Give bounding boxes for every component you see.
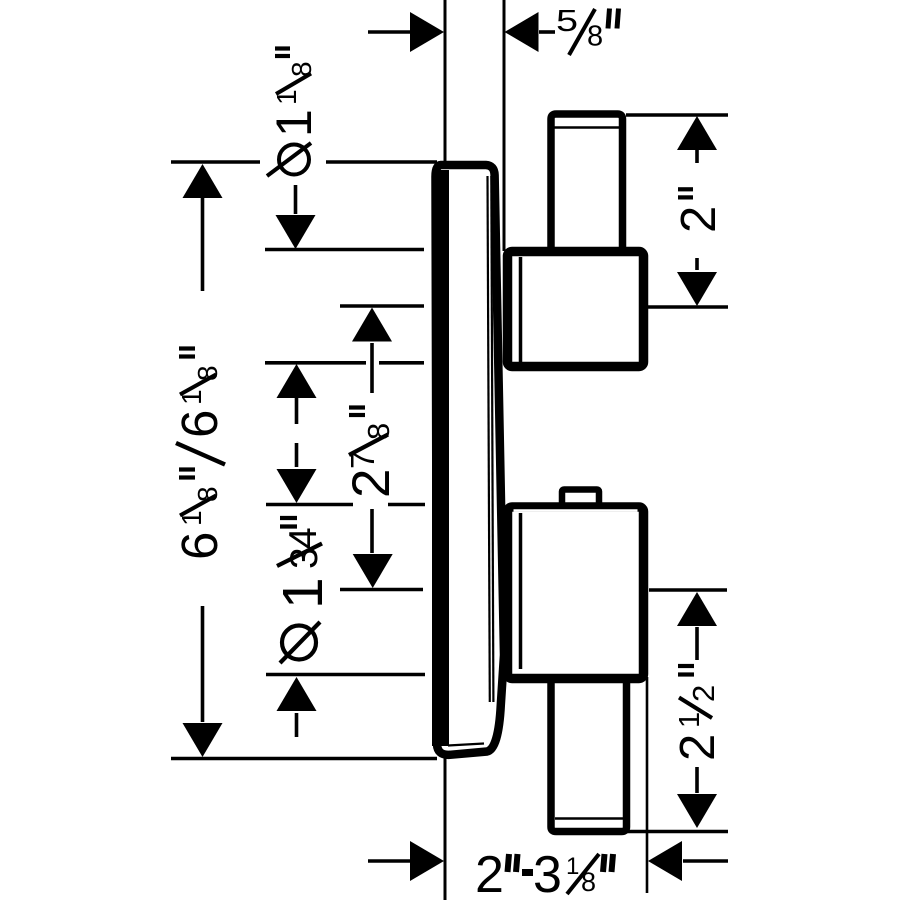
svg-text:8: 8 [587, 21, 603, 53]
svg-text:1: 1 [176, 389, 207, 405]
svg-text:6: 6 [171, 532, 228, 560]
svg-text:2: 2 [671, 734, 725, 761]
svg-text:2: 2 [342, 469, 401, 498]
svg-text:8: 8 [581, 867, 596, 897]
svg-text:1: 1 [674, 712, 706, 728]
svg-text:1: 1 [266, 109, 322, 137]
svg-text:6: 6 [171, 410, 228, 438]
svg-text:2: 2 [672, 206, 726, 233]
svg-text:2: 2 [686, 685, 721, 702]
svg-text:1: 1 [271, 89, 302, 105]
svg-text:2: 2 [475, 846, 504, 900]
svg-text:1: 1 [566, 853, 579, 880]
svg-text:1: 1 [176, 510, 207, 526]
svg-text:5: 5 [556, 3, 578, 38]
svg-text:1: 1 [271, 577, 335, 609]
svg-text:8: 8 [286, 61, 317, 77]
svg-text:3: 3 [533, 846, 562, 900]
